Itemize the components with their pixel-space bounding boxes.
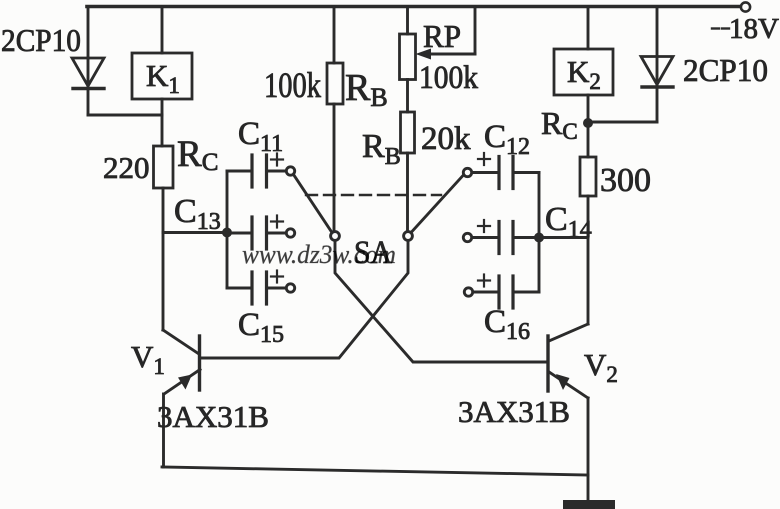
switch SA left pole (pivot + arm) bbox=[294, 175, 340, 241]
switch SA right pole (pivot + arm) bbox=[404, 176, 463, 241]
node C14 junction bbox=[534, 233, 544, 243]
svg-text:2CP10: 2CP10 bbox=[1, 22, 81, 58]
label RC (right) bbox=[541, 105, 578, 144]
wire RC2 to V2 collector bbox=[587, 196, 590, 324]
svg-text:www.dz3w.com: www.dz3w.com bbox=[242, 240, 396, 269]
svg-text:20k: 20k bbox=[421, 121, 471, 157]
capacitor C15 bbox=[252, 271, 295, 305]
svg-text:C11: C11 bbox=[238, 116, 283, 157]
power rail (top bus to -18V) bbox=[87, 5, 740, 9]
capacitor C14 bbox=[463, 220, 513, 254]
label 2CP10 (right) bbox=[683, 52, 768, 88]
capacitor C13 bbox=[252, 216, 295, 250]
label SA bbox=[354, 235, 392, 271]
svg-text:K2: K2 bbox=[567, 54, 601, 94]
switch SA coupling (dashed link) bbox=[306, 194, 441, 196]
svg-text:300: 300 bbox=[600, 162, 651, 199]
transistor V1 (3AX31B) bbox=[163, 330, 200, 467]
svg-text:RP: RP bbox=[423, 18, 461, 54]
svg-text:C14: C14 bbox=[545, 201, 592, 243]
svg-text:C16: C16 bbox=[484, 304, 530, 345]
label C12 bbox=[484, 119, 530, 160]
label 3AX31B (right) bbox=[458, 394, 570, 429]
label K1 bbox=[146, 58, 180, 98]
label RB (RB2) bbox=[362, 128, 401, 170]
wire K1 bottom to RC1 bbox=[161, 99, 164, 146]
svg-text:3AX31B: 3AX31B bbox=[458, 394, 570, 429]
diode VD1 2CP10 (left) bbox=[72, 7, 104, 115]
capacitor bus (left bank) bbox=[227, 171, 252, 288]
svg-text:V2: V2 bbox=[584, 347, 618, 387]
label C13 bbox=[174, 193, 221, 235]
svg-text:100k: 100k bbox=[264, 65, 321, 105]
label 20k bbox=[421, 121, 471, 157]
svg-text:C12: C12 bbox=[484, 119, 530, 160]
label 3AX31B (left) bbox=[157, 399, 269, 434]
node C13 junction bbox=[222, 228, 232, 238]
svg-text:RC: RC bbox=[541, 105, 578, 144]
label C14 bbox=[545, 201, 592, 243]
relay K1 bbox=[132, 7, 192, 99]
label RP bbox=[423, 18, 461, 54]
resistor RB1 100k bbox=[327, 7, 343, 232]
resistor RC2 300 bbox=[580, 123, 596, 196]
label K2 bbox=[567, 54, 601, 94]
wire RC1 to V1 collector bbox=[162, 188, 165, 330]
transistor V2 (3AX31B) bbox=[548, 324, 588, 502]
svg-text:2CP10: 2CP10 bbox=[683, 52, 768, 88]
capacitor C11 bbox=[252, 154, 295, 188]
resistor RB2 20k bbox=[401, 112, 415, 232]
label RC (left) bbox=[177, 134, 218, 176]
wire node C13 bbox=[163, 231, 227, 234]
wire node C14 bbox=[539, 236, 588, 239]
label C11 bbox=[238, 116, 283, 157]
svg-text:C15: C15 bbox=[238, 307, 284, 348]
wire SA left pole to V2 base bbox=[335, 240, 546, 362]
node K2/VD2/RC2 junction bbox=[583, 118, 593, 128]
capacitor bus (right bank) bbox=[513, 173, 539, 293]
label V2 bbox=[584, 347, 618, 387]
label C15 bbox=[238, 307, 284, 348]
capacitor C12 bbox=[463, 153, 513, 189]
svg-text:C13: C13 bbox=[174, 193, 221, 235]
wire VD1 anode to K1 bottom bbox=[88, 114, 162, 117]
capacitor C16 bbox=[464, 275, 513, 309]
terminal -18V bbox=[741, 2, 750, 11]
svg-text:220: 220 bbox=[103, 150, 150, 185]
label -18V bbox=[729, 13, 779, 45]
diode VD2 2CP10 (right) bbox=[588, 7, 673, 122]
resistor RC1 220 bbox=[154, 146, 174, 188]
emitter rail (bottom wire) bbox=[162, 467, 588, 475]
label 100k (RB1) bbox=[264, 65, 321, 105]
svg-text:RB: RB bbox=[362, 128, 401, 170]
label V1 bbox=[131, 339, 165, 379]
ground bbox=[563, 500, 615, 509]
svg-text:RC: RC bbox=[177, 134, 218, 176]
svg-text:18V: 18V bbox=[729, 13, 779, 45]
svg-text:100k: 100k bbox=[419, 60, 478, 96]
svg-text:3AX31B: 3AX31B bbox=[157, 399, 269, 434]
wire SA right pole to V1 base bbox=[201, 240, 408, 358]
label 300 bbox=[600, 162, 651, 199]
svg-text:V1: V1 bbox=[131, 339, 165, 379]
label RB (RB1) bbox=[345, 67, 388, 112]
label 2CP10 (left) bbox=[1, 22, 81, 58]
potentiometer RP 100k bbox=[400, 7, 476, 112]
svg-text:K1: K1 bbox=[146, 58, 180, 98]
label 220 bbox=[103, 150, 150, 185]
label C16 bbox=[484, 304, 530, 345]
svg-text:RB: RB bbox=[345, 67, 388, 112]
relay K2 bbox=[554, 7, 613, 124]
label 100k (RP) bbox=[419, 60, 478, 96]
